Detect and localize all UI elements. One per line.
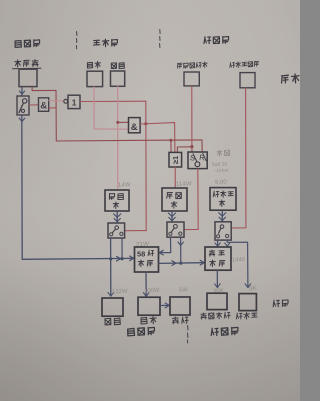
divider dashes (bottom) <box>186 326 189 344</box>
wire blue: stone machine down to S2 <box>116 211 118 222</box>
room label 西丽居 (bottom) <box>127 327 154 336</box>
wire blue: stone chest to other chest <box>160 304 169 306</box>
switch S2 box <box>108 223 125 238</box>
wire blue: nether machine down to S3 <box>171 212 173 222</box>
stone machine text line2 <box>113 202 119 209</box>
wire red: S1 to AND G1 <box>29 104 38 106</box>
arrowhead on S3 right drop <box>178 242 183 245</box>
label 圆石 <box>111 63 124 69</box>
switch S1 lever <box>19 103 23 113</box>
switch S1 box <box>17 96 29 115</box>
svg-text:58: 58 <box>137 250 145 259</box>
arrowhead into furnace bank left <box>130 256 134 261</box>
OR gate box ≥1 <box>169 152 182 167</box>
stone machine box 刷石机 <box>105 190 129 211</box>
double arrow (nether) <box>168 213 175 217</box>
AND gate G1 box <box>39 98 49 112</box>
double arrow (stone) <box>114 214 121 218</box>
label 仙人掌 (chest) <box>236 312 257 319</box>
wire red: G1 lower tap <box>49 107 56 109</box>
AND gate G2 box <box>129 118 141 133</box>
svg-text:1: 1 <box>72 98 77 108</box>
wire blue: furnace-array to switch S1 <box>21 87 23 95</box>
wire blue: furnace bank bottom to stone chest <box>145 272 147 296</box>
junction dot bus/OR-left <box>169 139 172 142</box>
wire blue: S2 right output down to bus <box>121 238 123 258</box>
furnace bank text 熔炉 <box>138 260 153 267</box>
SR latch S slash <box>193 154 197 161</box>
arrowhead into cobble chest <box>108 292 114 296</box>
wire red: junction to AND2 input <box>118 121 129 123</box>
label 熔炉组 <box>15 60 38 67</box>
svg-text:122W: 122W <box>112 289 128 296</box>
svg-text:~114pa: ~114pa <box>214 167 229 173</box>
switch S4 right contact <box>226 234 229 237</box>
wire red: cobble box drop to stone-machine <box>117 87 119 190</box>
switch S3 lever <box>171 228 174 232</box>
dry furnace text line1 <box>209 250 224 256</box>
junction dot blue S2L/bus <box>109 257 112 260</box>
arrowhead mid bus <box>117 256 121 261</box>
arrow into S1 <box>19 91 24 94</box>
double arrow (cactus) <box>219 213 226 217</box>
wire blue: S3 right output down to bus2 <box>180 237 182 263</box>
dye chest box 绿色染料 <box>207 293 227 309</box>
switch S2 left contact <box>110 233 113 236</box>
svg-text:&: & <box>40 100 47 111</box>
wire red: NOT output to right <box>80 100 146 102</box>
divider dashes (top-left) <box>75 32 78 49</box>
switch S2 top contact <box>115 226 119 230</box>
room label 西丽居 (top-left) <box>15 40 40 48</box>
junction dot cobble/AND2 <box>116 121 119 124</box>
nether machine text line2 <box>171 201 177 208</box>
dry furnace box 丝薯熔炉 <box>205 247 231 270</box>
wire blue: S2 left output down to cobble chest <box>110 238 112 295</box>
stone chest box <box>138 297 160 315</box>
label 地狱岩收集 <box>177 62 207 69</box>
arrowhead into dry furnace left <box>200 260 204 265</box>
switch S3 top contact <box>174 225 178 229</box>
stone generator box 石头 <box>87 71 103 86</box>
svg-text:114W: 114W <box>176 180 192 188</box>
svg-text:5W: 5W <box>179 287 189 293</box>
arrow below S1 <box>19 118 25 121</box>
wire red: branch into SR top-left <box>191 147 193 152</box>
wire blue: bus2 furnace to dry-furnace <box>159 262 204 265</box>
NOT gate input bubble <box>64 99 68 103</box>
wire blue: S4 left output into dry furnace top <box>217 240 219 246</box>
svg-text:100W: 100W <box>144 288 160 295</box>
arrowhead bus2 mid <box>172 261 176 266</box>
room label 北丽居 (top-right) <box>204 36 229 44</box>
switch S3 left contact <box>169 232 172 235</box>
NOT gate box <box>68 95 80 108</box>
switch S1 bottom contact <box>21 109 24 112</box>
nether machine text line1 <box>167 192 182 198</box>
junction dot netherrack <box>190 145 193 148</box>
arrowhead into furnace right edge <box>159 250 163 255</box>
furnace bank box 58个熔炉 <box>135 247 159 272</box>
switch S2 lever <box>112 229 115 232</box>
switch S2 right contact <box>120 232 123 235</box>
wire blue: dry furnace bottom to dye chest <box>216 271 218 288</box>
svg-text:&: & <box>131 122 138 133</box>
label 开关 (switch, right edge) <box>281 74 299 84</box>
svg-text:14W: 14W <box>118 181 131 189</box>
cobble chest box <box>102 298 123 316</box>
wire red: vertical x56 down to long bus <box>55 90 57 141</box>
wire red: furnace-array bottom to right-down <box>32 87 56 91</box>
divider dashes (top-middle) <box>159 30 162 48</box>
wire blue: cactus machine down to S4 <box>221 211 223 222</box>
switch S3 right contact <box>179 232 182 235</box>
switch S4 box <box>215 222 231 240</box>
cactus chest box 仙人掌 <box>239 294 256 311</box>
wire red: bus tee down into OR gate <box>170 140 172 152</box>
junction dot G2-out / NOT-down <box>144 122 147 125</box>
wire red: branch to OR top <box>177 147 192 152</box>
label 石头 <box>87 61 100 68</box>
wire blue: S4 right output bypass to cactus chest <box>227 240 248 287</box>
switch S4 left contact <box>217 235 220 238</box>
cactus machine text line2 <box>219 200 225 207</box>
label 绿色染料 <box>201 312 230 320</box>
furnace-array box 熔炉组 <box>19 69 37 86</box>
wire red: G1 output to NOT bubble <box>49 100 64 102</box>
label 仙人掌收煤 <box>230 61 259 68</box>
svg-text:5:00: 5:00 <box>215 180 228 186</box>
wire red: cactus-collector drop <box>231 88 246 228</box>
room label 北丽居 (bottom) <box>211 327 238 336</box>
pencil note line1 (right of SR) <box>217 150 230 157</box>
label 石头 (chest) <box>141 316 157 324</box>
wire red: netherrack drop <box>191 86 193 147</box>
svg-text:5K: 5K <box>249 285 258 293</box>
svg-text:1440: 1440 <box>232 257 245 263</box>
switch S3 box <box>167 222 184 237</box>
wire red: stone box drop <box>94 87 128 129</box>
arrowhead into cactus chest <box>245 284 251 288</box>
wire red: long horizontal bus y141 <box>56 140 202 141</box>
arrowhead S4 left <box>215 243 220 246</box>
svg-text:≥1: ≥1 <box>171 156 180 164</box>
underline of 熔炉组 <box>13 67 42 70</box>
switch S1 lever circle <box>23 99 27 103</box>
switch S4 top contact <box>220 225 224 229</box>
arrowhead on S4 right stub <box>225 243 230 246</box>
room label 主楼室 (top-middle) <box>93 39 117 47</box>
junction dot blue S3R/bus2 <box>179 262 182 265</box>
switch S4 lever <box>219 229 221 234</box>
dry furnace text line2 <box>210 260 225 267</box>
arrowhead into stone chest <box>143 293 149 297</box>
cactus machine text line1 <box>213 191 233 197</box>
wire red: SR output down <box>184 169 198 230</box>
cactus collector box <box>240 73 255 88</box>
wire blue: S3 left output into furnace bank <box>159 237 171 252</box>
wire red: into S2 right edge <box>125 230 146 232</box>
cactus machine box 仙人掌机 <box>210 188 236 211</box>
wire blue: S1 long loop to furnace bank <box>22 115 134 259</box>
cobblestone generator box 圆石 <box>111 71 125 86</box>
label 仓库 (warehouse) <box>273 299 289 307</box>
netherrack collector box <box>184 72 199 86</box>
junction dot blue S2R/bus <box>121 257 124 260</box>
stone machine text line1 <box>109 193 123 199</box>
nether machine box 地狱机 <box>162 188 187 211</box>
wire red: OR output down to nether-machine <box>174 167 176 188</box>
wire red: bus corner down into SR top-right <box>201 140 203 152</box>
label 其他 (chest) <box>172 317 188 324</box>
wire red: G2 output to right-down into OR <box>140 123 175 153</box>
arrowhead into other chest <box>165 303 169 308</box>
label 圆石 (chest) <box>105 318 120 325</box>
SR latch R slash <box>203 154 206 161</box>
other chest box 其他 <box>170 297 190 315</box>
SR latch output circle <box>195 162 200 167</box>
SR latch box <box>188 152 207 169</box>
arrowhead into dye chest <box>215 284 221 288</box>
wire red: NOT-output vertical down to S2 <box>145 101 147 230</box>
